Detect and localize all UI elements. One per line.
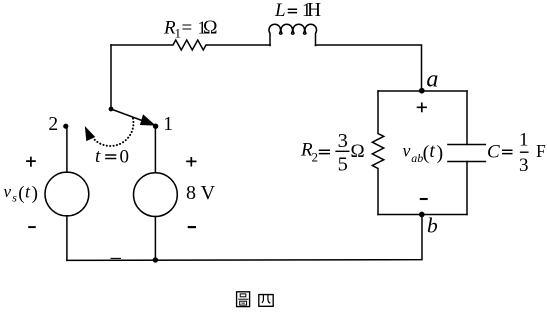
svg-text:): ) [437,142,444,164]
svg-text:8 V: 8 V [186,182,216,204]
svg-text:b: b [427,214,438,238]
svg-text:0: 0 [120,147,130,168]
svg-text:2: 2 [312,150,319,165]
svg-text:3: 3 [519,155,529,176]
svg-text:1: 1 [519,130,529,151]
svg-text:F: F [536,141,546,161]
svg-text:3: 3 [338,130,348,152]
svg-text:(: ( [18,183,24,204]
svg-text:H: H [307,0,321,21]
svg-text:s: s [12,190,17,204]
svg-text:L: L [274,0,286,21]
svg-text:v: v [4,182,12,201]
svg-text:ab: ab [411,151,423,165]
svg-text:t: t [429,141,435,162]
svg-text:v: v [403,140,411,160]
svg-text:C: C [487,142,500,163]
svg-text:): ) [32,183,38,204]
svg-text:a: a [426,67,438,93]
svg-text:2: 2 [48,114,58,135]
svg-text:t: t [95,146,101,167]
svg-text:1: 1 [163,114,173,135]
svg-text:Ω: Ω [351,141,365,162]
svg-text:=: = [182,18,193,39]
svg-text:Ω: Ω [203,18,218,39]
svg-text:5: 5 [338,154,348,176]
svg-text:1: 1 [175,26,182,41]
